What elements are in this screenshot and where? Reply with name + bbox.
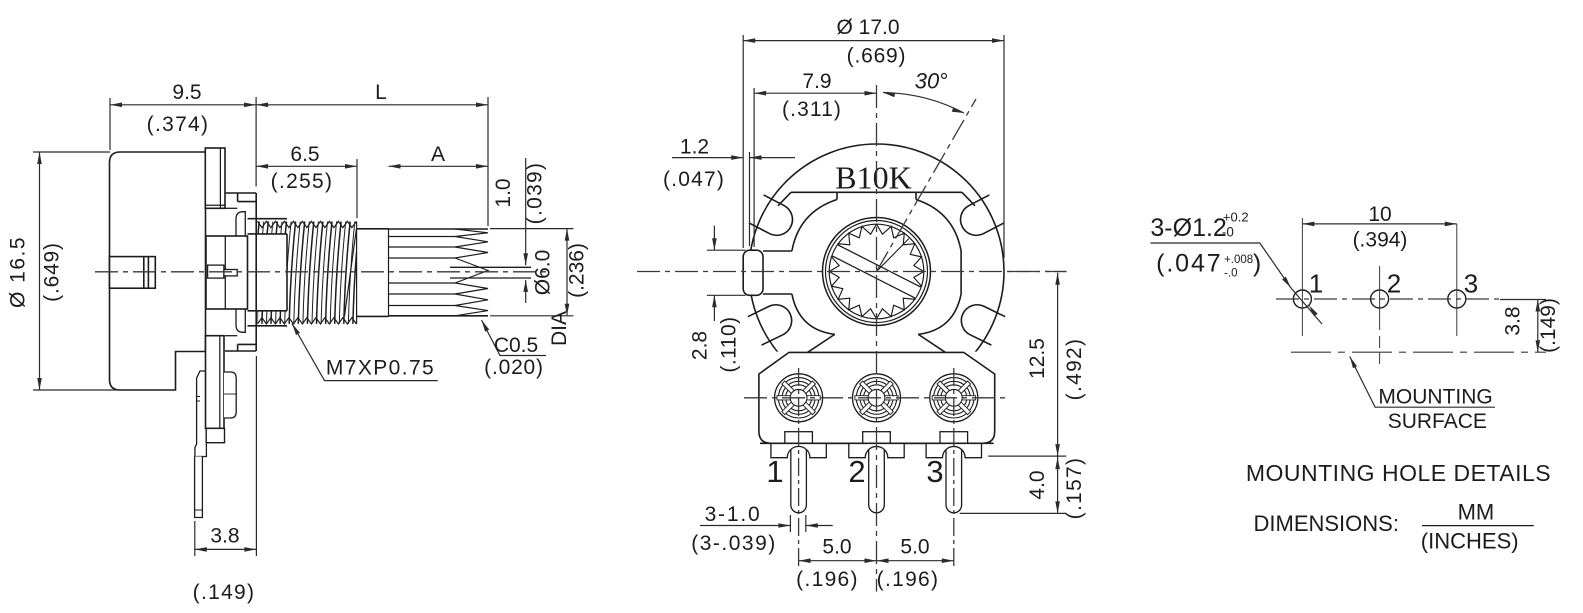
- side view: rounded lug lower: [236, 308, 245, 332]
- svg-text:DIA: DIA: [548, 311, 571, 346]
- svg-text:MM: MM: [1458, 500, 1495, 525]
- svg-text:(.492): (.492): [1063, 338, 1086, 401]
- svg-text:MOUNTING HOLE DETAILS: MOUNTING HOLE DETAILS: [1246, 460, 1551, 486]
- side view: thread crest profile top: [257, 221, 356, 227]
- dim 12.5 and 4.0 right stack: [1007, 271, 1067, 273]
- svg-text:(.157): (.157): [1063, 457, 1086, 520]
- label C0.5 chamfer: [482, 320, 547, 356]
- dim 2.8 lug height: [707, 249, 746, 251]
- front view: anti-rotation lug: [743, 250, 763, 295]
- dim 10: [1302, 223, 1456, 225]
- svg-text:(.255): (.255): [271, 170, 334, 193]
- svg-text:): ): [1253, 250, 1261, 278]
- svg-text:10: 10: [1368, 203, 1391, 226]
- side view: mounting face: [255, 193, 257, 351]
- svg-text:+.008: +.008: [1224, 254, 1253, 266]
- front view: cover top edge line: [791, 191, 962, 193]
- dim 5.0 pin pitch: [799, 560, 954, 562]
- svg-text:A: A: [431, 143, 445, 166]
- mounting surface line: [1291, 351, 1546, 353]
- svg-text:3.8: 3.8: [1502, 306, 1525, 335]
- svg-text:3-Ø1.2: 3-Ø1.2: [1150, 214, 1226, 242]
- side view: rounded lug upper: [236, 212, 245, 236]
- side view: shaft end with slot: [208, 265, 224, 278]
- side view: rear shaft boss through body: [110, 257, 156, 289]
- side view: terminal pin: [195, 457, 203, 518]
- svg-text:1.0: 1.0: [492, 178, 515, 207]
- front view: vertical centerline: [876, 85, 878, 592]
- label M7XP0.75 thread: [292, 324, 438, 381]
- svg-text:(.311): (.311): [782, 98, 842, 121]
- svg-text:-.0: -.0: [1224, 268, 1237, 280]
- svg-text:2.8: 2.8: [689, 331, 712, 360]
- svg-text:SURFACE: SURFACE: [1388, 410, 1487, 433]
- side view: bottom mounting tab: [206, 336, 225, 429]
- hole 3 vertical line: [1456, 224, 1458, 336]
- svg-text:(INCHES): (INCHES): [1421, 529, 1519, 554]
- dim L: [487, 97, 489, 226]
- svg-text:5.0: 5.0: [822, 536, 851, 559]
- svg-text:3: 3: [926, 454, 943, 489]
- dim 1.2 lug: [749, 152, 751, 246]
- svg-text:C0.5: C0.5: [494, 334, 538, 357]
- front view: rim notch upper-right: [961, 195, 1004, 235]
- front view: rivets: [775, 374, 823, 422]
- svg-text:(.047: (.047: [1156, 250, 1222, 278]
- front view: rivet row centerline: [744, 397, 1009, 399]
- svg-text:-0: -0: [1222, 225, 1234, 240]
- side view: lower terminal plate: [195, 371, 207, 457]
- svg-text:B10K: B10K: [835, 160, 911, 196]
- svg-text:(.649): (.649): [41, 242, 64, 302]
- front view: chamber bottom openings: [808, 335, 835, 353]
- hole 1 vertical line: [1301, 218, 1303, 336]
- svg-text:(.020): (.020): [484, 356, 544, 379]
- mounting surface label leader: [1350, 357, 1495, 408]
- svg-text:Ø 16.5: Ø 16.5: [7, 236, 30, 308]
- svg-text:DIMENSIONS:: DIMENSIONS:: [1254, 511, 1399, 536]
- svg-text:3.8: 3.8: [210, 525, 239, 548]
- front view: rim notch lower-right: [961, 305, 1005, 345]
- side view: horizontal centerline: [95, 271, 546, 273]
- dim A: [389, 165, 489, 167]
- dim 3-1.0 pin width: [789, 515, 791, 532]
- svg-text:(.236): (.236): [566, 243, 589, 298]
- svg-text:Ø6.0: Ø6.0: [532, 250, 555, 296]
- dim 6.0 dia: [490, 228, 574, 230]
- hole 2 vertical line: [1379, 266, 1381, 330]
- svg-text:2: 2: [1387, 269, 1401, 299]
- dim 9.5: [109, 98, 111, 150]
- potentiometer side view: body outline: [110, 152, 206, 390]
- side view: top mounting tab: [205, 148, 225, 208]
- svg-text:3-1.0: 3-1.0: [705, 503, 762, 526]
- front view: housing bottom edge over collars: [760, 442, 994, 444]
- side view: tab end piece: [206, 428, 224, 442]
- front view: terminal pins: [791, 446, 807, 513]
- front view: 9:00 notch sides: [763, 250, 792, 252]
- svg-text:(.149): (.149): [193, 581, 256, 604]
- dim 6.5: [356, 159, 358, 218]
- svg-text:MOUNTING: MOUNTING: [1378, 386, 1492, 409]
- svg-text:4.0: 4.0: [1026, 470, 1049, 499]
- front view: bushing circles: [823, 218, 931, 326]
- dim 16.5 dia vertical: [33, 151, 110, 153]
- hole centerline horizontal: [1276, 298, 1500, 300]
- svg-text:(.047): (.047): [663, 168, 725, 191]
- svg-text:6.5: 6.5: [290, 143, 319, 166]
- svg-text:(.110): (.110): [718, 316, 741, 372]
- svg-text:M7XP0.75: M7XP0.75: [326, 357, 435, 380]
- svg-text:2: 2: [848, 454, 865, 489]
- front view: body circle dia 17: [749, 144, 1004, 399]
- side view: bracket upper step: [225, 192, 256, 194]
- side view: thread crest profile bottom: [257, 318, 356, 324]
- side view: bracket lower step: [225, 350, 256, 352]
- front view: chamber cavity: [792, 200, 837, 252]
- side view: knurled shaft dia 6: [389, 228, 489, 230]
- svg-text:1: 1: [766, 454, 783, 489]
- front view: pin collars: [771, 443, 826, 457]
- svg-text:5.0: 5.0: [900, 536, 929, 559]
- front view: shaft slot: [832, 245, 920, 298]
- front view: rim notch upper-left: [749, 195, 792, 235]
- mounting holes: [1293, 290, 1311, 308]
- svg-text:30: 30: [915, 69, 940, 94]
- front view: lower housing: [759, 352, 995, 443]
- svg-text:(.196): (.196): [877, 568, 940, 591]
- svg-text:+0.2: +0.2: [1223, 210, 1249, 225]
- front view: 30 deg index line: [877, 99, 977, 272]
- side view: center hub block: [206, 236, 248, 309]
- front view: shaft knurl teeth: [829, 224, 924, 319]
- svg-text:7.9: 7.9: [802, 70, 831, 93]
- dim 30 deg arc: [883, 93, 964, 114]
- svg-text:(.149): (.149): [1537, 298, 1560, 353]
- side view: bushing base collar with flat: [248, 234, 288, 311]
- dim 3.8 tab offset: [194, 521, 196, 556]
- side view: smooth shaft neck: [357, 228, 389, 230]
- front view: rotor position line: [877, 239, 910, 272]
- svg-text:9.5: 9.5: [172, 81, 201, 104]
- svg-text:L: L: [375, 81, 387, 104]
- svg-text:(.374): (.374): [147, 113, 210, 136]
- svg-text:12.5: 12.5: [1026, 338, 1049, 379]
- dim 3.8 hole offset: [1537, 300, 1539, 353]
- svg-text:(.039): (.039): [524, 162, 547, 225]
- dim 1.0 slot width: [525, 158, 527, 265]
- front view: pin centerlines: [798, 368, 800, 566]
- side view: shaft slot (depth lines): [450, 266, 531, 268]
- svg-text:3: 3: [1464, 269, 1478, 299]
- svg-text:1: 1: [1309, 269, 1323, 299]
- front view: rim notch lower-left: [748, 305, 792, 345]
- dim dia 17.0: [742, 35, 744, 248]
- dim 7.9: [753, 88, 755, 247]
- side view: terminal clip: [224, 372, 236, 418]
- svg-text:Ø 17.0: Ø 17.0: [836, 16, 899, 39]
- svg-text:°: °: [940, 69, 949, 94]
- svg-text:(.394): (.394): [1353, 228, 1408, 251]
- front view: horizontal centerline: [637, 271, 1067, 273]
- svg-text:(.669): (.669): [847, 45, 907, 68]
- svg-text:(.196): (.196): [796, 568, 859, 591]
- front view: terminal entry tabs: [785, 432, 813, 444]
- svg-text:(3-.039): (3-.039): [691, 532, 777, 555]
- svg-text:1.2: 1.2: [680, 136, 709, 159]
